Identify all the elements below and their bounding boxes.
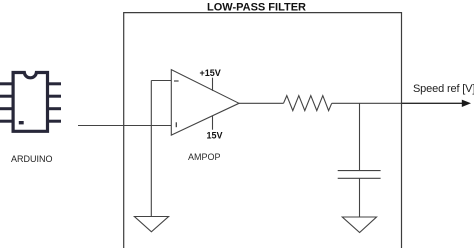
- svg-text:15V: 15V: [207, 130, 223, 140]
- IC U1 pin 1 marker dot: [19, 121, 24, 124]
- IC U1 right pin 1: [48, 82, 61, 85]
- svg-text:+15V: +15V: [200, 68, 221, 78]
- resistor R1 zigzag: [284, 96, 332, 111]
- wire: Arduino output to op-amp non-inverting input: [78, 125, 171, 127]
- wire: inverting input down to ground: [150, 81, 152, 217]
- IC U1 right pin 4: [48, 120, 61, 123]
- ground symbol (op-amp input): [134, 217, 168, 232]
- op-amp inverting input minus mark: [174, 80, 179, 82]
- label: AMPOP: [188, 152, 221, 162]
- wire: -15V supply lead: [212, 116, 214, 130]
- op-amp non-inverting input plus mark: [175, 122, 177, 127]
- enclosure box: LOW-PASS FILTER subsystem boundary: [124, 13, 402, 248]
- IC U1 right pin 2: [48, 95, 61, 98]
- label: Speed ref [V]: [413, 83, 474, 95]
- label: -15V supply: [207, 130, 223, 140]
- svg-text:Speed ref [V]: Speed ref [V]: [413, 83, 474, 95]
- svg-text:ARDUINO: ARDUINO: [11, 154, 53, 164]
- wire: op-amp output to resistor: [239, 102, 284, 104]
- svg-text:LOW-PASS FILTER: LOW-PASS FILTER: [207, 2, 306, 14]
- IC U1 left pin 3: [0, 107, 13, 110]
- IC U1 left pin 1: [0, 82, 13, 85]
- IC U1: ARDUINO DIP package body: [13, 73, 47, 132]
- ground symbol (capacitor): [342, 217, 376, 233]
- label: ARDUINO: [11, 154, 53, 164]
- IC U1 left pin 4: [0, 120, 13, 123]
- wire: node down to capacitor: [359, 103, 361, 170]
- label: LOW-PASS FILTER title: [207, 2, 306, 14]
- IC U1 left pin 2: [0, 95, 13, 98]
- wire: capacitor to ground: [359, 178, 361, 217]
- arrowhead: speed ref output: [462, 100, 471, 107]
- label: +15V supply: [200, 68, 221, 78]
- capacitor C1 bottom plate: [338, 177, 381, 179]
- wire: resistor to box edge and output node: [332, 102, 402, 104]
- svg-text:AMPOP: AMPOP: [188, 152, 221, 162]
- wire: +15V supply lead: [212, 78, 214, 91]
- wire: inverting input stub: [151, 80, 171, 82]
- op-amp U2 AMPOP triangle: [171, 70, 239, 136]
- wire: output arrow outside box: [402, 102, 464, 104]
- IC U1 right pin 3: [48, 107, 61, 110]
- capacitor C1 top plate: [338, 170, 381, 172]
